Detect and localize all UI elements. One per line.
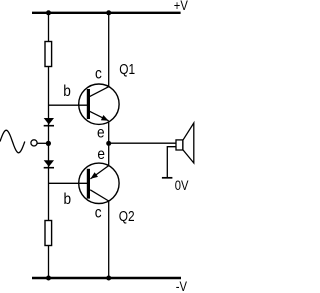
- resistor R1: [45, 42, 52, 67]
- wire Q1 emitter down: [108, 122, 110, 143]
- label c Q1: [95, 66, 102, 83]
- label e Q2: [97, 146, 105, 163]
- wire input to node: [37, 142, 46, 144]
- label c Q2: [95, 205, 102, 222]
- diode D1: [44, 118, 54, 126]
- wire output to speaker: [109, 142, 176, 144]
- wire speaker bottom terminal: [167, 147, 176, 178]
- wire Q2 emitter up: [108, 143, 110, 165]
- input sine wave: [0, 130, 25, 153]
- label b Q1: [63, 83, 71, 100]
- wire Q1 base lead: [49, 104, 88, 106]
- wire Q2 collector down: [108, 201, 110, 278]
- label +V: [174, 0, 189, 13]
- wire left chain upper: [48, 13, 50, 42]
- label Q1: [119, 61, 135, 77]
- svg-text:c: c: [95, 205, 102, 222]
- +V rail: [32, 12, 181, 14]
- node bottom rail right: [106, 276, 111, 281]
- svg-text:Q1: Q1: [119, 61, 135, 77]
- svg-text:b: b: [64, 191, 72, 208]
- wire left chain middle: [48, 67, 50, 221]
- wire left chain lower: [48, 246, 50, 279]
- svg-text:c: c: [95, 66, 102, 83]
- svg-text:+V: +V: [174, 0, 189, 13]
- input terminal circle: [31, 140, 37, 146]
- svg-text:b: b: [63, 83, 71, 100]
- label Q2: [119, 208, 135, 224]
- speaker LS1: [176, 123, 194, 163]
- transistor Q2: [79, 163, 119, 203]
- node top rail right: [106, 10, 111, 15]
- svg-text:e: e: [97, 125, 105, 142]
- svg-text:0V: 0V: [175, 178, 189, 193]
- label e Q1: [97, 125, 105, 142]
- svg-text:Q2: Q2: [119, 208, 135, 224]
- node bottom rail left: [46, 276, 51, 281]
- node top rail left: [46, 10, 51, 15]
- svg-text:e: e: [97, 146, 105, 163]
- svg-text:-V: -V: [176, 279, 188, 293]
- node input junction: [46, 141, 51, 146]
- ground 0V bar: [162, 177, 173, 179]
- label b Q2: [64, 191, 72, 208]
- label -V: [176, 279, 188, 293]
- label 0V: [175, 178, 189, 193]
- wire Q1 collector up: [108, 13, 110, 87]
- diode D2: [44, 160, 54, 167]
- resistor R2: [45, 221, 52, 246]
- node output junction: [106, 141, 111, 146]
- transistor Q1: [79, 84, 119, 124]
- wire Q2 base lead: [49, 182, 88, 184]
- -V rail: [32, 277, 181, 279]
